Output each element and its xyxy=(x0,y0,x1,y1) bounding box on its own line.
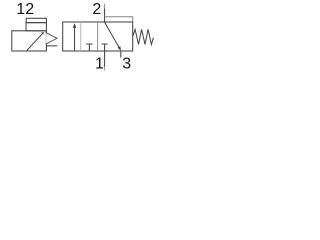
port 2 wire xyxy=(104,9,106,23)
compartment3 T blocked port xyxy=(102,44,108,51)
divider 2 xyxy=(97,22,99,51)
solenoid manual override rect xyxy=(26,18,46,22)
compartment2 T blocked port xyxy=(86,44,92,51)
divider 1 xyxy=(80,22,82,51)
svg-text:2: 2 xyxy=(92,1,101,18)
port 3 stub xyxy=(120,51,122,58)
solenoid coil box xyxy=(12,31,47,51)
compartment1 arrowhead xyxy=(73,23,76,28)
solenoid upper rect xyxy=(26,23,46,31)
return spring xyxy=(133,29,154,44)
port 2 open end xyxy=(104,4,106,9)
compartment1 arrow shaft xyxy=(74,24,76,51)
pilot triangle xyxy=(46,32,58,44)
compartment3 diagonal arrowhead xyxy=(118,46,121,50)
svg-text:12: 12 xyxy=(16,1,34,18)
pilot channel wire xyxy=(46,45,57,47)
port 1 wire xyxy=(104,51,106,67)
svg-text:1: 1 xyxy=(95,55,104,72)
svg-text:3: 3 xyxy=(122,55,131,72)
pneumatic spring pilot jog wire xyxy=(105,17,133,22)
port 1 open end xyxy=(104,67,106,71)
coil diagonal arrow xyxy=(26,33,43,51)
valve body xyxy=(63,22,133,51)
compartment3 diagonal passage xyxy=(105,22,121,50)
